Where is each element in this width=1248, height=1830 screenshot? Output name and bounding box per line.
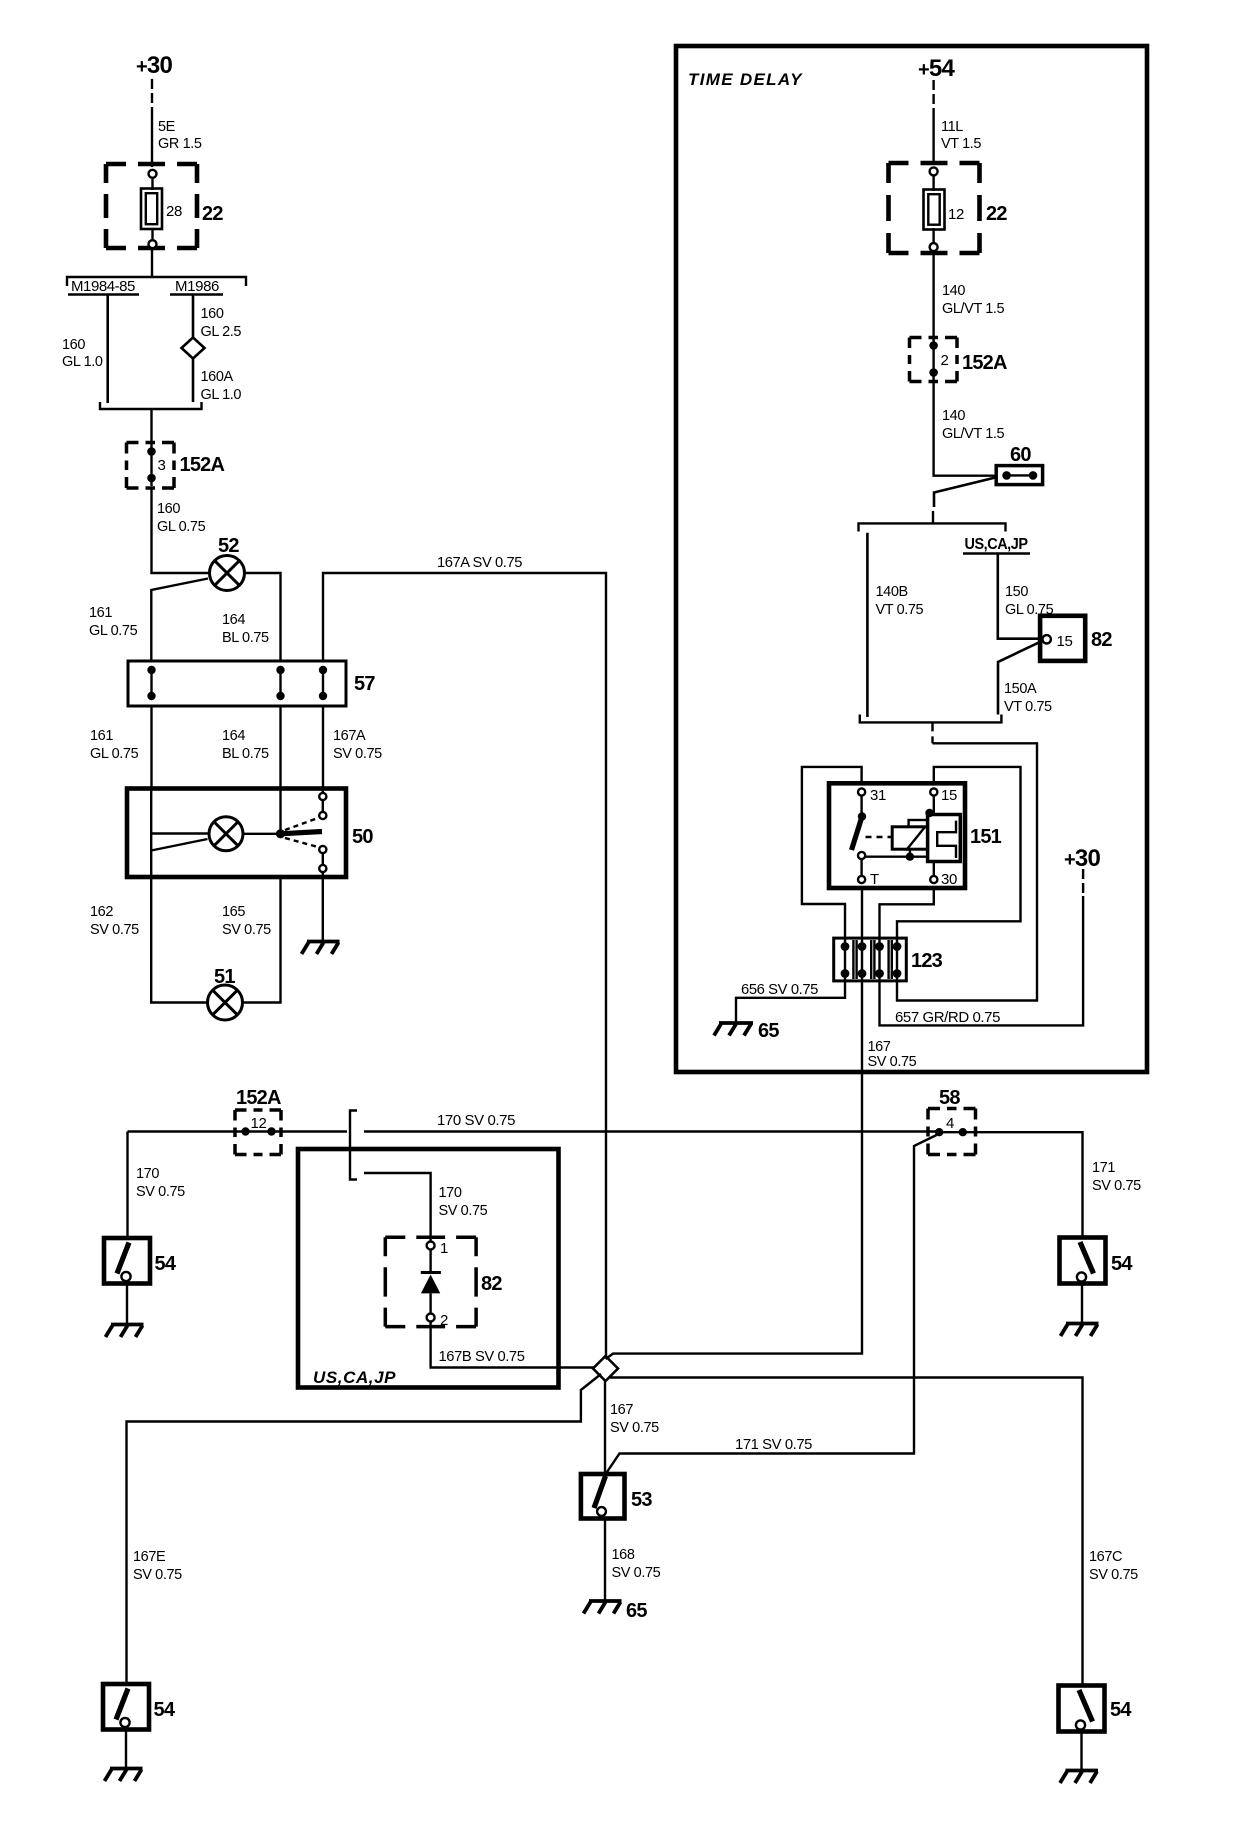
svg-text:VT 1.5: VT 1.5 xyxy=(941,136,981,152)
svg-text:GL 1.0: GL 1.0 xyxy=(201,387,242,403)
svg-text:12: 12 xyxy=(251,1115,267,1132)
svg-text:US,CA,JP: US,CA,JP xyxy=(965,536,1029,553)
wire 162 SV 0.75 xyxy=(151,877,207,1003)
wire 5E GR 1.5 xyxy=(151,112,153,167)
pin T xyxy=(858,876,865,883)
wire pin 15 to electronic unit xyxy=(933,796,935,815)
wire 167 SV 0.75 (123 down to diamond) xyxy=(606,974,863,1359)
switch arm in unit 50 xyxy=(281,832,323,834)
svg-text:152A: 152A xyxy=(180,454,225,476)
wire 167A SV 0.75 (long run to the right) xyxy=(323,573,606,1356)
svg-text:VT 0.75: VT 0.75 xyxy=(1004,699,1052,715)
svg-text:15: 15 xyxy=(1057,633,1073,650)
wire switch 54 to ground (lower right) xyxy=(1080,1732,1082,1771)
door switch 54 (lower right) xyxy=(1059,1686,1105,1732)
svg-text:150: 150 xyxy=(1005,584,1028,600)
svg-text:656 SV 0.75: 656 SV 0.75 xyxy=(741,982,818,998)
pin 2 of diode 82 xyxy=(427,1314,435,1322)
wire lamp 52 to 161 (diagonal) xyxy=(151,579,208,662)
variant box US,CA,JP (lower left) xyxy=(298,1149,559,1388)
wire switch 54 to ground (upper right) xyxy=(1081,1284,1083,1324)
wire 170 SV 0.75 (down to switch 54 left) xyxy=(126,1132,128,1239)
lamp 52 xyxy=(210,556,245,591)
wire 161 into unit 50 xyxy=(151,789,209,878)
svg-text:54: 54 xyxy=(154,1699,176,1721)
dashed links to contacts in unit 50 xyxy=(285,818,318,830)
pin 15 xyxy=(930,788,937,795)
svg-text:165: 165 xyxy=(222,904,245,920)
svg-text:60: 60 xyxy=(1010,444,1031,466)
svg-text:GL 1.0: GL 1.0 xyxy=(62,354,103,370)
fuse box 22 (left, fuse 28) xyxy=(106,164,197,248)
wire contact to unit xyxy=(865,856,927,858)
lamp 51 xyxy=(208,985,243,1020)
svg-text:TIME DELAY: TIME DELAY xyxy=(688,70,803,89)
connector 152A pin 12 xyxy=(235,1110,281,1155)
svg-text:152A: 152A xyxy=(236,1087,281,1109)
wire 161 GL 0.75 (57 to unit 50) xyxy=(150,706,152,788)
wire lamp to 162 (diagonal inside unit 50) xyxy=(151,839,207,851)
svg-text:GL 0.75: GL 0.75 xyxy=(89,623,138,639)
wire 140 GL/VT 1.5 (fuse to 152A) xyxy=(932,251,934,339)
svg-text:167A: 167A xyxy=(333,728,366,744)
wire 150 GL 0.75 xyxy=(998,555,1043,639)
connector 123 xyxy=(834,938,907,981)
svg-text:12: 12 xyxy=(948,206,964,223)
pin 31 xyxy=(858,788,865,795)
svg-text:57: 57 xyxy=(354,673,375,695)
svg-text:+30: +30 xyxy=(136,52,172,79)
svg-text:SV 0.75: SV 0.75 xyxy=(136,1184,185,1200)
svg-text:140: 140 xyxy=(942,283,965,299)
svg-text:171: 171 xyxy=(1092,1160,1115,1176)
wire 168 SV 0.75 xyxy=(604,1519,606,1601)
svg-text:50: 50 xyxy=(352,826,373,848)
svg-text:51: 51 xyxy=(214,966,235,988)
wire unit to pin 30 xyxy=(933,862,935,876)
connector 60 xyxy=(996,466,1042,485)
svg-text:140: 140 xyxy=(942,408,965,424)
wire 167 SV 0.75 (diamond down to switch 53) xyxy=(604,1381,606,1474)
wire 164 BL 0.75 (lamp 52 right) xyxy=(245,573,281,661)
wire 60 down to variant bracket (diagonal) xyxy=(934,478,995,508)
svg-text:SV 0.75: SV 0.75 xyxy=(133,1567,182,1583)
wire 170 SV 0.75 (into variant box) xyxy=(364,1173,431,1242)
wire 167C SV 0.75 (diamond to lower right) xyxy=(610,1378,1083,1686)
svg-text:SV 0.75: SV 0.75 xyxy=(439,1203,488,1219)
wire 11L VT 1.5 xyxy=(932,110,934,165)
svg-text:123: 123 xyxy=(911,950,943,972)
wire 167A SV 0.75 (57 to unit 50) xyxy=(322,706,324,788)
wire 657 GR/RD 0.75 (+30 to 123) xyxy=(880,896,1084,1025)
lamp inside unit 50 xyxy=(209,817,243,851)
wire 656 SV 0.75 (123 to ground 65) xyxy=(736,974,845,1022)
wire 160 GL 1.0 (M1984-85 branch) xyxy=(106,296,109,404)
svg-text:GL/VT 1.5: GL/VT 1.5 xyxy=(942,301,1005,317)
svg-text:M1984-85: M1984-85 xyxy=(71,278,135,295)
wire lamp right to switch junction xyxy=(243,833,281,835)
svg-text:28: 28 xyxy=(166,203,182,220)
svg-text:BL 0.75: BL 0.75 xyxy=(222,746,269,762)
ground (under 54 lower left) xyxy=(105,1769,143,1782)
svg-text:161: 161 xyxy=(89,605,112,621)
connector 57 xyxy=(128,661,346,706)
svg-text:54: 54 xyxy=(1110,1699,1132,1721)
svg-text:+30: +30 xyxy=(1064,845,1100,872)
ground 65 (under 53) xyxy=(584,1601,622,1614)
svg-text:GL/VT 1.5: GL/VT 1.5 xyxy=(942,426,1005,442)
svg-text:GL 0.75: GL 0.75 xyxy=(157,519,206,535)
electronic unit (zigzag box) xyxy=(928,815,961,862)
svg-text:65: 65 xyxy=(626,1600,647,1622)
ground (under 54 lower right) xyxy=(1060,1771,1098,1784)
junction dot at unit top xyxy=(925,809,933,817)
svg-text:161: 161 xyxy=(90,728,113,744)
svg-text:VT 0.75: VT 0.75 xyxy=(876,602,924,618)
svg-text:171 SV 0.75: 171 SV 0.75 xyxy=(735,1437,812,1453)
wire relay pin T to 123 pin 2 xyxy=(861,888,863,947)
wire switch 54 to ground (lower left) xyxy=(125,1730,127,1769)
lighting switch unit 50 (box) xyxy=(127,789,346,878)
door switch 54 (upper left) xyxy=(104,1238,150,1284)
contact circles in unit 50 xyxy=(319,789,326,878)
svg-text:82: 82 xyxy=(481,1273,502,1295)
wire from +54, dashed lead xyxy=(932,80,934,110)
svg-text:SV 0.75: SV 0.75 xyxy=(868,1054,917,1070)
svg-text:167A SV 0.75: 167A SV 0.75 xyxy=(437,555,522,571)
svg-text:30: 30 xyxy=(941,871,957,888)
svg-text:1: 1 xyxy=(440,1240,448,1257)
svg-text:GL 0.75: GL 0.75 xyxy=(90,746,139,762)
pin 1 of diode 82 xyxy=(427,1242,435,1250)
variant alternatives bracket (top) xyxy=(859,523,1006,531)
svg-text:167: 167 xyxy=(868,1039,891,1055)
switch 53 xyxy=(581,1474,625,1519)
wire relay pin 31 to 123 pin 1 xyxy=(802,767,862,947)
relay switch blade xyxy=(852,796,867,876)
svg-text:167C: 167C xyxy=(1089,1549,1122,1565)
ground 65 (time delay) xyxy=(714,1023,753,1036)
wire 164 into unit 50 xyxy=(279,789,281,834)
svg-text:65: 65 xyxy=(758,1020,779,1042)
svg-text:160: 160 xyxy=(62,337,85,353)
wire 150A VT 0.75 (diagonal from 82) xyxy=(998,642,1041,715)
svg-text:53: 53 xyxy=(631,1489,652,1511)
svg-text:152A: 152A xyxy=(962,352,1007,374)
relay 151 (time delay relay box) xyxy=(829,783,965,888)
wire 160A GL 1.0 xyxy=(192,359,195,403)
ground (under 54 upper right) xyxy=(1061,1324,1099,1337)
svg-text:160: 160 xyxy=(157,501,180,517)
svg-text:168: 168 xyxy=(612,1547,635,1563)
wire relay pin 30 to 123 pin 3 xyxy=(880,888,934,947)
wire 167E SV 0.75 (diamond to lower left) xyxy=(127,1374,602,1684)
wire bracket to connector 152A xyxy=(150,409,152,444)
TIME DELAY function frame xyxy=(676,46,1147,1072)
svg-text:164: 164 xyxy=(222,728,245,744)
svg-text:+54: +54 xyxy=(918,55,955,82)
dashed stub to variant bracket xyxy=(932,511,934,523)
svg-text:657 GR/RD 0.75: 657 GR/RD 0.75 xyxy=(895,1010,1000,1026)
merge bracket xyxy=(100,402,202,409)
svg-text:54: 54 xyxy=(155,1253,177,1275)
wire 167B SV 0.75 xyxy=(431,1322,594,1368)
wire fuse to year bracket xyxy=(151,248,153,277)
door switch 54 (lower left) xyxy=(103,1684,149,1730)
svg-text:52: 52 xyxy=(218,535,239,557)
pin 30 xyxy=(930,876,937,883)
svg-text:11L: 11L xyxy=(941,119,963,135)
svg-text:58: 58 xyxy=(939,1087,960,1109)
splice diamond (junction 167) xyxy=(593,1356,618,1381)
wire switch 54 to ground (upper left) xyxy=(126,1284,128,1325)
svg-text:170: 170 xyxy=(439,1185,462,1201)
wire from +30, dashed lead (time delay) xyxy=(1082,869,1084,896)
svg-text:160: 160 xyxy=(201,306,224,322)
svg-text:31: 31 xyxy=(870,787,886,804)
svg-text:167B SV 0.75: 167B SV 0.75 xyxy=(439,1349,525,1365)
wire bracket to connector 123 pin 4 xyxy=(897,743,1037,1000)
svg-text:82: 82 xyxy=(1091,629,1112,651)
svg-text:SV 0.75: SV 0.75 xyxy=(333,746,382,762)
svg-text:SV 0.75: SV 0.75 xyxy=(610,1420,659,1436)
ground (under 54 upper left) xyxy=(106,1325,144,1338)
dashed stub below bracket xyxy=(931,722,933,743)
svg-text:2: 2 xyxy=(941,352,949,369)
svg-text:BL 0.75: BL 0.75 xyxy=(222,630,269,646)
svg-text:170: 170 xyxy=(136,1166,159,1182)
svg-text:22: 22 xyxy=(986,203,1007,225)
door switch 54 (upper right) xyxy=(1060,1238,1106,1284)
control unit 82 (time delay) xyxy=(1040,616,1085,661)
svg-text:162: 162 xyxy=(90,904,113,920)
junction dot (coil tap) xyxy=(906,853,914,861)
wire 170 SV 0.75 (horizontal run) xyxy=(128,1130,940,1132)
svg-text:3: 3 xyxy=(158,457,166,474)
svg-text:GR 1.5: GR 1.5 xyxy=(158,136,202,152)
svg-text:167E: 167E xyxy=(133,1549,166,1565)
svg-text:US,CA,JP: US,CA,JP xyxy=(313,1368,396,1387)
svg-text:170 SV 0.75: 170 SV 0.75 xyxy=(437,1113,515,1129)
connector 152A pin 2 xyxy=(910,338,958,382)
splice diamond (M1986 branch) xyxy=(182,338,205,359)
connector 58 pin 4 xyxy=(928,1109,976,1155)
wire 160 GL 0.75 xyxy=(152,488,210,573)
ground (below unit 50) xyxy=(302,942,340,955)
svg-text:150A: 150A xyxy=(1004,681,1037,697)
variant break bracket (wire 170) xyxy=(350,1111,357,1180)
wire 171 SV 0.75 (53 up to connector 58) xyxy=(607,1135,937,1472)
wire 160 GL 2.5 (M1986 branch) xyxy=(192,296,195,338)
variant alternatives bracket (bottom) xyxy=(860,715,1002,723)
svg-text:151: 151 xyxy=(970,826,1002,848)
svg-text:SV 0.75: SV 0.75 xyxy=(222,922,271,938)
connector 152A pin 3 xyxy=(127,443,175,489)
wire 171 SV 0.75 (58 to switch 54 upper right) xyxy=(963,1132,1083,1237)
year alternatives bracket xyxy=(67,277,246,286)
wire unit 50 to ground xyxy=(322,877,324,941)
wire 165 SV 0.75 xyxy=(243,877,281,1003)
junction dot in unit 50 xyxy=(276,829,285,838)
wire from +30, dashed lead xyxy=(151,79,153,112)
wire 140 GL/VT 1.5 (152A to 60) xyxy=(934,382,997,476)
diode symbol xyxy=(421,1250,441,1314)
svg-text:SV 0.75: SV 0.75 xyxy=(612,1565,661,1581)
wire 164 BL 0.75 (57 to unit 50) xyxy=(279,706,281,788)
svg-text:T: T xyxy=(870,871,879,888)
svg-text:54: 54 xyxy=(1111,1253,1133,1275)
svg-text:164: 164 xyxy=(222,612,245,628)
dashed actuator link xyxy=(866,836,893,838)
fuse box 22 (right, fuse 12) xyxy=(889,163,980,253)
svg-text:GL 2.5: GL 2.5 xyxy=(201,324,242,340)
svg-text:167: 167 xyxy=(610,1402,633,1418)
svg-text:15: 15 xyxy=(941,787,957,804)
pin 15 of unit 82 xyxy=(1043,635,1051,643)
wire 140B VT 0.75 xyxy=(866,533,869,717)
svg-text:M1986: M1986 xyxy=(175,278,219,295)
diode 82 (dashed box) xyxy=(385,1237,476,1326)
svg-text:SV 0.75: SV 0.75 xyxy=(90,922,139,938)
svg-text:140B: 140B xyxy=(876,584,908,600)
relay coil xyxy=(892,820,927,857)
svg-text:22: 22 xyxy=(202,203,223,225)
svg-text:5E: 5E xyxy=(158,119,176,135)
svg-text:SV 0.75: SV 0.75 xyxy=(1089,1567,1138,1583)
wire relay pin 15 to 123 pin 4 xyxy=(897,767,1021,947)
svg-text:2: 2 xyxy=(440,1312,448,1329)
svg-text:4: 4 xyxy=(946,1115,954,1132)
svg-text:160A: 160A xyxy=(201,369,234,385)
svg-text:SV 0.75: SV 0.75 xyxy=(1092,1178,1141,1194)
